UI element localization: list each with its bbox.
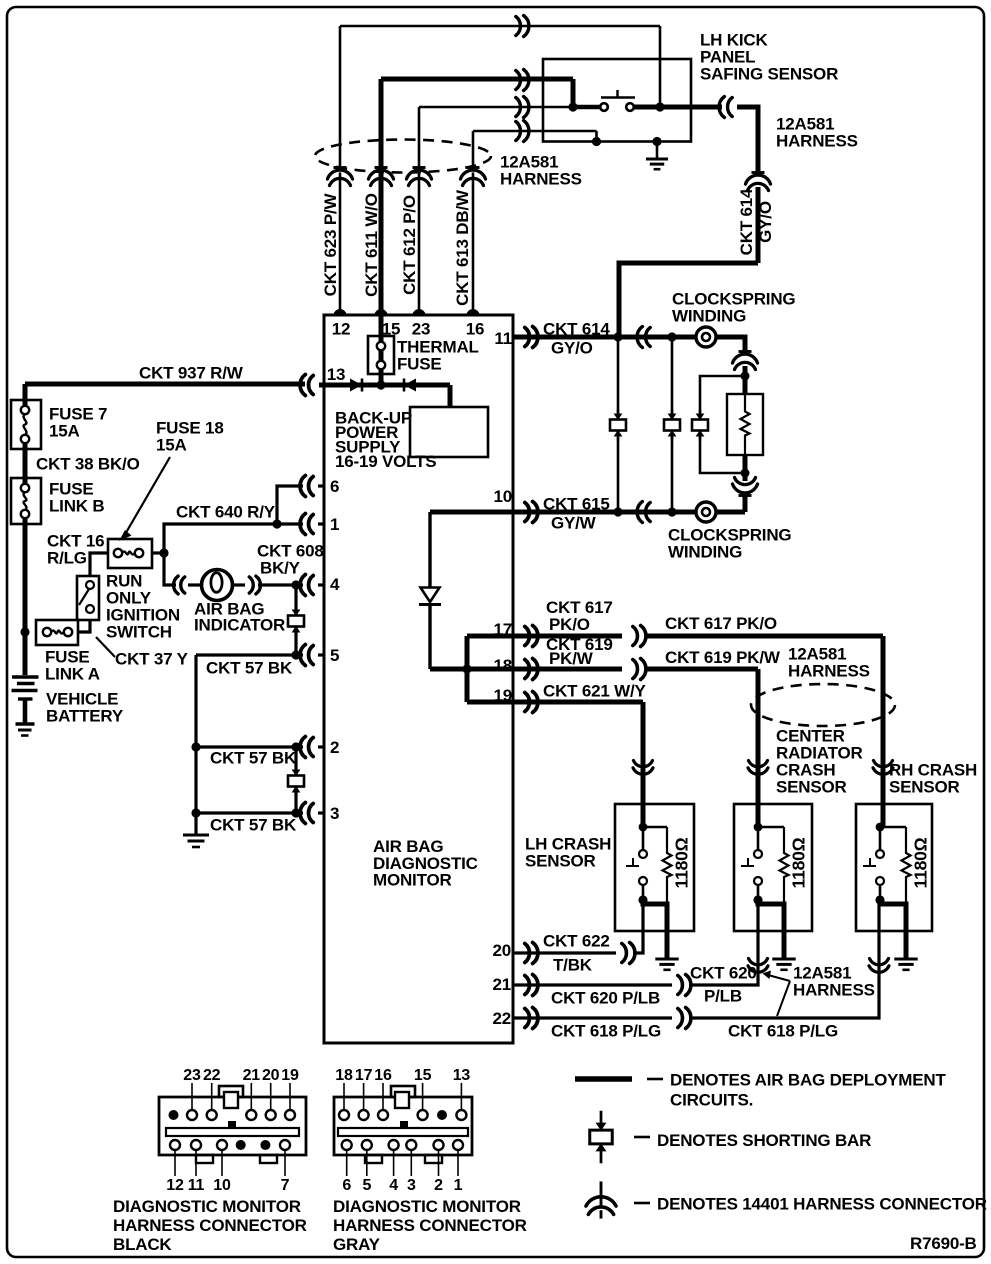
- svg-text:WINDING: WINDING: [668, 543, 742, 562]
- svg-text:DENOTES 14401 HARNESS CONNECTO: DENOTES 14401 HARNESS CONNECTOR: [657, 1195, 987, 1214]
- svg-text:17: 17: [355, 1067, 373, 1084]
- svg-text:CKT 57 BK: CKT 57 BK: [210, 816, 297, 835]
- svg-text:12: 12: [332, 320, 351, 339]
- svg-text:CKT 612 P/O: CKT 612 P/O: [400, 195, 419, 295]
- svg-text:1: 1: [454, 1177, 463, 1194]
- svg-text:11: 11: [188, 1177, 205, 1194]
- svg-text:SENSOR: SENSOR: [889, 778, 960, 797]
- svg-text:21: 21: [243, 1067, 261, 1084]
- svg-text:7: 7: [281, 1177, 290, 1194]
- svg-text:22: 22: [203, 1067, 221, 1084]
- svg-text:PK/W: PK/W: [549, 649, 594, 668]
- svg-text:3: 3: [407, 1177, 416, 1194]
- svg-text:DENOTES SHORTING BAR: DENOTES SHORTING BAR: [657, 1131, 871, 1150]
- svg-text:CKT 615: CKT 615: [543, 495, 610, 514]
- svg-text:MONITOR: MONITOR: [373, 871, 452, 890]
- svg-text:23: 23: [183, 1067, 201, 1084]
- svg-text:16-19 VOLTS: 16-19 VOLTS: [335, 452, 436, 471]
- svg-text:6: 6: [342, 1177, 351, 1194]
- svg-text:1: 1: [330, 515, 339, 534]
- svg-text:DIAGNOSTIC MONITOR: DIAGNOSTIC MONITOR: [333, 1197, 521, 1216]
- svg-text:CKT 623 P/W: CKT 623 P/W: [321, 193, 340, 297]
- svg-text:HARNESS: HARNESS: [788, 662, 870, 681]
- svg-text:BLACK: BLACK: [113, 1235, 172, 1254]
- svg-text:GY/W: GY/W: [551, 514, 597, 533]
- svg-text:20: 20: [492, 941, 511, 960]
- svg-text:2: 2: [434, 1177, 443, 1194]
- svg-text:12: 12: [166, 1177, 184, 1194]
- svg-text:GRAY: GRAY: [333, 1235, 381, 1254]
- svg-text:18: 18: [493, 656, 512, 675]
- svg-text:6: 6: [330, 477, 339, 496]
- svg-text:BATTERY: BATTERY: [46, 707, 124, 726]
- svg-text:HARNESS CONNECTOR: HARNESS CONNECTOR: [113, 1216, 307, 1235]
- svg-text:13: 13: [327, 365, 346, 384]
- svg-text:15A: 15A: [49, 422, 80, 441]
- svg-text:CKT 621 W/Y: CKT 621 W/Y: [543, 682, 647, 701]
- svg-text:CKT 620: CKT 620: [690, 964, 757, 983]
- svg-text:HARNESS: HARNESS: [793, 981, 875, 1000]
- svg-text:PK/O: PK/O: [549, 615, 590, 634]
- svg-text:CKT 640 R/Y: CKT 640 R/Y: [176, 503, 276, 522]
- svg-text:SENSOR: SENSOR: [525, 852, 596, 871]
- svg-text:CIRCUITS.: CIRCUITS.: [670, 1091, 753, 1110]
- svg-text:18: 18: [335, 1067, 353, 1084]
- svg-text:1180Ω: 1180Ω: [672, 837, 692, 888]
- svg-text:17: 17: [493, 620, 512, 639]
- svg-text:CKT 937 R/W: CKT 937 R/W: [139, 364, 244, 383]
- svg-text:4: 4: [330, 575, 340, 594]
- svg-text:WINDING: WINDING: [672, 307, 746, 326]
- svg-text:16: 16: [466, 320, 485, 339]
- svg-text:13: 13: [453, 1067, 471, 1084]
- svg-text:5: 5: [362, 1177, 371, 1194]
- svg-text:CKT 613 DB/W: CKT 613 DB/W: [453, 189, 472, 306]
- svg-text:SENSOR: SENSOR: [776, 778, 847, 797]
- svg-text:INDICATOR: INDICATOR: [194, 616, 285, 635]
- svg-text:4: 4: [389, 1177, 398, 1194]
- svg-text:3: 3: [330, 804, 339, 823]
- svg-text:FUSE: FUSE: [397, 355, 442, 374]
- svg-text:16: 16: [374, 1067, 392, 1084]
- svg-text:5: 5: [330, 646, 339, 665]
- svg-text:CKT 37 Y: CKT 37 Y: [115, 650, 189, 669]
- svg-text:LINK A: LINK A: [45, 665, 100, 684]
- svg-text:CKT 57 BK: CKT 57 BK: [210, 749, 297, 768]
- svg-text:GY/O: GY/O: [756, 201, 775, 243]
- svg-text:SWITCH: SWITCH: [106, 623, 172, 642]
- svg-text:T/BK: T/BK: [553, 956, 593, 975]
- svg-text:CKT 619 PK/W: CKT 619 PK/W: [665, 648, 781, 667]
- svg-text:LINK B: LINK B: [49, 497, 104, 516]
- svg-text:1180Ω: 1180Ω: [789, 837, 809, 888]
- svg-text:CKT 38 BK/O: CKT 38 BK/O: [36, 455, 140, 474]
- svg-text:CKT 618 P/LG: CKT 618 P/LG: [728, 1022, 838, 1041]
- svg-text:R7690-B: R7690-B: [910, 1234, 977, 1253]
- svg-text:2: 2: [330, 738, 339, 757]
- svg-text:20: 20: [262, 1067, 280, 1084]
- svg-text:1180Ω: 1180Ω: [911, 837, 931, 888]
- svg-text:23: 23: [412, 320, 431, 339]
- svg-text:DIAGNOSTIC MONITOR: DIAGNOSTIC MONITOR: [113, 1197, 301, 1216]
- svg-text:CKT 617 PK/O: CKT 617 PK/O: [665, 614, 777, 633]
- svg-text:19: 19: [281, 1067, 299, 1084]
- svg-text:HARNESS: HARNESS: [776, 132, 858, 151]
- svg-text:CKT 620 P/LB: CKT 620 P/LB: [551, 989, 660, 1008]
- svg-text:BK/Y: BK/Y: [260, 559, 301, 578]
- svg-text:11: 11: [494, 329, 512, 348]
- svg-text:SAFING SENSOR: SAFING SENSOR: [700, 65, 838, 84]
- svg-text:CKT 614: CKT 614: [737, 188, 756, 255]
- svg-text:P/LB: P/LB: [704, 987, 742, 1006]
- svg-text:10: 10: [213, 1177, 231, 1194]
- svg-text:22: 22: [492, 1009, 511, 1028]
- svg-text:CKT 57 BK: CKT 57 BK: [206, 659, 293, 678]
- svg-text:CKT 611 W/O: CKT 611 W/O: [362, 193, 381, 297]
- svg-text:15A: 15A: [156, 436, 187, 455]
- svg-text:19: 19: [493, 686, 512, 705]
- svg-text:DENOTES AIR BAG DEPLOYMENT: DENOTES AIR BAG DEPLOYMENT: [670, 1071, 946, 1090]
- svg-text:GY/O: GY/O: [551, 339, 593, 358]
- svg-text:15: 15: [414, 1067, 432, 1084]
- svg-text:CKT 618 P/LG: CKT 618 P/LG: [551, 1022, 661, 1041]
- svg-text:CKT 614: CKT 614: [543, 320, 610, 339]
- svg-text:HARNESS CONNECTOR: HARNESS CONNECTOR: [333, 1216, 527, 1235]
- svg-text:21: 21: [492, 975, 511, 994]
- svg-text:HARNESS: HARNESS: [500, 170, 582, 189]
- svg-text:CKT 622: CKT 622: [543, 932, 610, 951]
- svg-text:R/LG: R/LG: [47, 549, 87, 568]
- svg-text:10: 10: [493, 487, 512, 506]
